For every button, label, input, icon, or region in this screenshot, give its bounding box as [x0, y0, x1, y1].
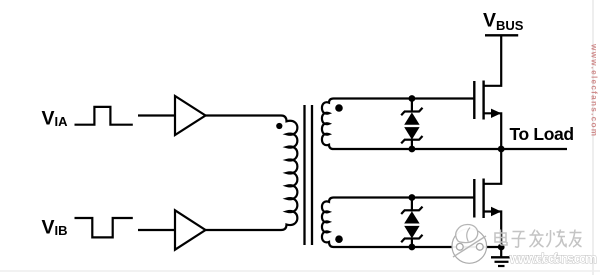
svg-text:www.elecfans.com: www.elecfans.com [509, 251, 598, 266]
svg-text:To Load: To Load [510, 124, 575, 144]
svg-text:www.elecfans.com: www.elecfans.com [590, 43, 599, 136]
